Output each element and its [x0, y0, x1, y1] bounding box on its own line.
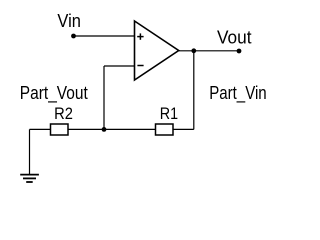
svg-text:R1: R1	[160, 105, 178, 123]
svg-text:Part_Vin: Part_Vin	[209, 83, 267, 104]
wire down to ground	[29, 129, 31, 174]
svg-text:Vout: Vout	[217, 27, 252, 47]
svg-text:R2: R2	[54, 105, 73, 123]
op-amp - pin marker	[137, 65, 143, 67]
junction feedback node	[102, 127, 107, 132]
wire output vertical down to R1	[193, 51, 195, 130]
node Vin pin dot	[71, 34, 76, 39]
junction output node	[191, 48, 196, 53]
wire Vin to op-amp + input	[74, 35, 135, 37]
wire R2 to R1 through junction	[68, 128, 156, 130]
op-amp + pin marker	[137, 33, 143, 39]
wire feedback vertical	[103, 66, 105, 129]
wire feedback horizontal to - input	[104, 65, 135, 67]
wire R1 right to vertical	[173, 128, 194, 130]
op-amp U1 triangle	[135, 21, 179, 80]
resistor R2 body	[51, 124, 69, 135]
resistor R1 body	[156, 124, 174, 135]
ground	[20, 175, 39, 182]
node Vout pin dot	[237, 49, 242, 54]
wire R2 left	[30, 128, 51, 130]
svg-text:Part_Vout: Part_Vout	[20, 83, 88, 104]
wire op-amp output	[179, 50, 239, 52]
svg-text:Vin: Vin	[57, 11, 81, 31]
